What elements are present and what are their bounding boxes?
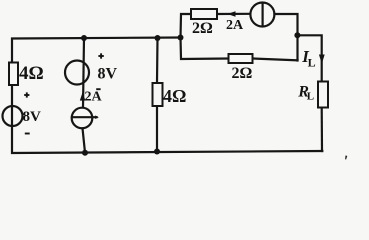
svg-text:2Ω: 2Ω [232,65,253,82]
svg-text:2A: 2A [226,18,244,33]
svg-text:2Ω: 2Ω [192,20,213,37]
svg-text:8V: 8V [98,66,118,83]
svg-text:2A: 2A [85,90,103,105]
svg-text:4Ω: 4Ω [163,86,186,106]
svg-text:4Ω: 4Ω [19,63,44,84]
svg-text:L: L [308,55,316,69]
svg-text:8V: 8V [23,109,42,125]
svg-text:L: L [307,91,314,103]
